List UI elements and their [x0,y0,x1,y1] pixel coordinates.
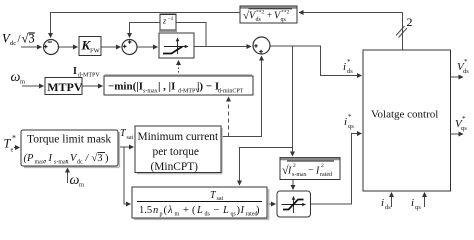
svg-text:√3: √3 [92,152,103,164]
svg-text:p: p [160,212,163,218]
svg-text:−: − [214,205,220,216]
wire MTPV to min block [82,85,103,87]
wire dotted min to sat1 limit [178,61,180,77]
svg-text:(MinCPT): (MinCPT) [151,161,199,173]
label ids bottom [381,197,391,211]
label Te* [4,134,17,154]
block sqrtI [280,158,340,180]
block sat1 [159,30,194,58]
svg-text:2: 2 [293,163,296,169]
svg-text:Minimum current: Minimum current [138,131,220,143]
svg-text:n: n [153,205,158,216]
svg-text:m: m [20,79,25,86]
svg-text:λ: λ [167,205,173,216]
svg-text:ω: ω [70,173,80,188]
wire feedback top-left [51,13,241,38]
svg-text:,: , [44,153,47,164]
wire branch to fraction block top [240,148,293,186]
svg-text:L: L [196,205,203,216]
block MinCPT [135,126,222,174]
svg-text:−min(|I: −min(|I [108,81,143,93]
svg-text:−: − [308,165,314,176]
svg-text:FW: FW [90,48,101,55]
svg-text:(P: (P [24,153,34,164]
svg-text:m: m [175,212,180,218]
wire dashed MinCPT to min block [228,97,230,137]
wire omega up into mask [67,168,69,183]
svg-text:i: i [343,61,346,73]
block fraction [132,187,269,219]
wire sum1 to KFW [59,46,78,48]
svg-text:qs: qs [281,17,287,23]
sum2 [122,40,137,55]
svg-text:): ) [256,205,260,216]
svg-text:*: * [464,58,468,66]
svg-text:ds: ds [385,204,391,211]
svg-text:qs: qs [348,123,354,130]
wire iqs bottom input [424,193,426,208]
svg-text:ds: ds [205,212,211,218]
label Tsat [120,128,133,141]
svg-text:*: * [462,115,466,123]
svg-text:I: I [48,153,53,164]
svg-text:+: + [183,205,189,216]
svg-text:d-minCPT: d-minCPT [218,89,244,95]
wire sat1 to sum3 [194,46,251,48]
svg-text:rated: rated [320,172,332,178]
wire bus 2 down to voltage control [402,13,404,51]
svg-text:): ) [105,153,109,164]
svg-text:Torque limit mask: Torque limit mask [27,134,111,146]
wire ids bottom input [391,193,393,208]
block sat2 [277,191,311,217]
svg-text:ω: ω [11,70,21,85]
svg-text:I: I [73,66,77,77]
svg-text:√3: √3 [22,32,35,46]
svg-text:(: ( [164,205,168,216]
svg-text:i: i [411,197,414,209]
wire z-1 out to sum2 top [130,23,161,38]
wire Vqs* output [451,133,464,135]
label omega_m bottom [70,173,85,189]
label iqs bottom [411,197,421,211]
svg-text:2: 2 [407,15,413,29]
svg-text:dc: dc [77,160,83,166]
wire MinCPT out to sum3 bottom [221,56,262,137]
svg-text:**2: **2 [256,10,265,16]
svg-text:+: + [267,10,272,20]
block voltage control [363,50,451,191]
block KFW [79,37,101,56]
label i*qs [344,113,354,130]
wire sat2 out to voltage control i*qs [311,134,362,205]
label Vds* out [457,58,469,75]
svg-text:s-max: s-max [143,89,158,95]
svg-text:s-max: s-max [292,172,307,178]
wire mask to MinCPT [118,146,134,148]
svg-text:i: i [381,197,384,209]
svg-text:2: 2 [321,163,324,169]
wire Vds* output [451,76,464,78]
wire KFW to sum2 [101,46,121,48]
svg-text:|) − I: |) − I [197,81,219,93]
svg-text:MTPV: MTPV [47,80,83,94]
svg-text:**2: **2 [281,10,290,16]
label Vdc/sqrt3 [2,32,35,48]
svg-text:qs: qs [415,204,421,211]
svg-text:−1: −1 [168,16,174,22]
wire omega to MTPV [22,85,44,87]
svg-text:L: L [222,205,229,216]
wire sum3 out to voltage control i*ds [270,46,362,76]
label Vqs* out [455,115,467,132]
wire Vdc input [21,46,42,48]
svg-text:| , |I: | , |I [158,81,175,93]
wire fraction to sat2 [267,203,276,205]
svg-text:m: m [79,182,84,189]
svg-text:1.5: 1.5 [139,205,152,216]
svg-text:*: * [12,134,16,143]
svg-text:Volatge control: Volatge control [371,109,438,121]
svg-text:ds: ds [347,68,353,75]
svg-text:i: i [344,116,347,128]
svg-text:dc: dc [10,40,16,47]
label i*ds [343,58,353,75]
svg-text:e: e [11,147,14,154]
wire sqrtI down to sat2 [292,180,294,190]
label I d-MTPV [73,66,100,79]
svg-text:ds: ds [256,17,262,23]
svg-text:I: I [240,205,245,216]
svg-text:d-MTPV: d-MTPV [78,73,100,79]
wire sum2 to sat1 [137,46,158,48]
block min formula [104,75,253,95]
block MTPV [45,78,83,95]
bus slash [399,28,408,38]
wire Te* into mask [14,147,20,149]
block z-1 [160,13,177,30]
svg-text:qs: qs [461,125,467,132]
svg-text:*: * [348,113,352,121]
svg-text:sat: sat [127,135,134,141]
sum3 [253,37,270,54]
block mask [21,130,119,167]
svg-text:(: ( [192,205,196,216]
svg-text:per torque: per torque [153,146,200,158]
svg-text:*: * [347,58,351,66]
wire branch i*ds down to sqrtI block [292,46,294,156]
svg-text:ds: ds [463,68,469,75]
wire branch down to fraction block [124,147,131,204]
block sqrtV [240,6,297,23]
svg-text:,: , [66,153,69,164]
wire branch into z-1 [176,23,206,47]
sum1 [44,40,59,55]
wire feedback top-right into sqrt block [299,12,403,14]
label omega_m left [11,70,26,86]
